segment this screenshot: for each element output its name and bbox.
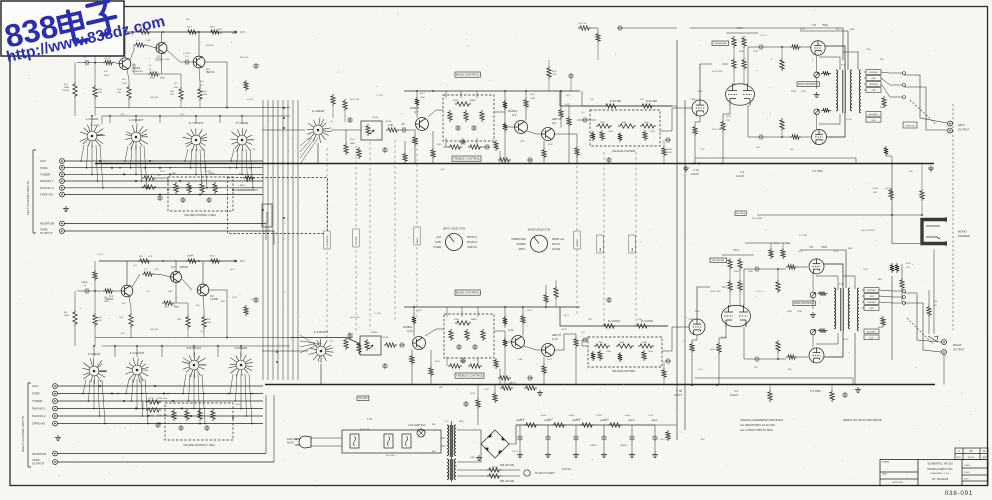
resistor bleed [666, 430, 670, 441]
wire top right [591, 28, 598, 32]
junction [195, 115, 197, 117]
wire input TAPE R [57, 393, 263, 395]
svg-text:APPROVED: APPROVED [893, 481, 904, 484]
svg-text:AUX: AUX [40, 159, 46, 163]
junction [777, 268, 779, 270]
svg-text:BLU: BLU [880, 59, 885, 61]
svg-text:PHONO 2: PHONO 2 [40, 186, 54, 190]
junction [169, 167, 171, 169]
rotary wafer 6-8 REAR bottom [228, 353, 252, 377]
resistor filter R2 [635, 324, 649, 328]
svg-text:DWG: DWG [964, 479, 969, 481]
resistor V3 plate 2a [732, 58, 736, 70]
svg-text:23V: 23V [754, 367, 758, 369]
gang label VOLUME [353, 229, 359, 247]
wire ground bus right channel [265, 384, 935, 386]
wire wafer fan [200, 149, 202, 181]
resistor ladder L1 [503, 100, 507, 110]
junction bus4 [716, 384, 718, 386]
wire [576, 157, 578, 164]
capacitor bass R1 [456, 344, 461, 350]
wire volume out L [233, 189, 258, 191]
resistor R-27R [554, 286, 558, 299]
svg-text:-10V: -10V [120, 114, 125, 116]
svg-text:PHONO 2: PHONO 2 [32, 414, 46, 418]
resistor 598 top [596, 32, 600, 43]
svg-text:DRAWN: DRAWN [882, 461, 890, 464]
svg-text:1.5 TY: 1.5 TY [104, 58, 111, 60]
svg-text:2-P1 LAMP 53-X: 2-P1 LAMP 53-X [408, 424, 426, 427]
svg-text:R-47: R-47 [548, 419, 554, 421]
resistor bass L top [455, 102, 471, 106]
svg-text:40MFD: 40MFD [628, 420, 636, 422]
capacitor PS 1 [463, 401, 468, 407]
capacitor coupling R1 [754, 266, 760, 271]
svg-text:TUNER: TUNER [40, 173, 51, 177]
wire B+ to riser [655, 424, 677, 426]
resistor loudness L [187, 182, 191, 194]
resistor R-30 470K [146, 400, 161, 404]
svg-text:R-11: R-11 [218, 29, 223, 31]
svg-text:R-16: R-16 [150, 78, 156, 80]
resistor filter 1 [524, 423, 538, 427]
svg-text:ALL CAPACITORS IN MFD: ALL CAPACITORS IN MFD [740, 428, 773, 432]
svg-text:BLK: BLK [872, 120, 876, 122]
resistor phones drop 1 [889, 188, 893, 200]
wire V5 cathode [816, 56, 818, 73]
svg-text:R-45: R-45 [470, 393, 476, 395]
svg-text:DRIVER BAL: DRIVER BAL [712, 259, 726, 262]
wire monitor drop L [265, 224, 267, 241]
bundle junction [283, 217, 285, 219]
wire B+ riser [676, 40, 678, 440]
gang shaft (dashed) [369, 142, 371, 330]
svg-text:ORN/WHT: ORN/WHT [867, 302, 877, 304]
svg-text:R-35 470K: R-35 470K [712, 129, 723, 131]
wire [130, 328, 132, 338]
resistor Q9 emitter [542, 148, 546, 159]
wire input PHONO 1 L [64, 180, 263, 182]
svg-text:BLU: BLU [878, 279, 883, 281]
svg-text:T-10: T-10 [444, 421, 449, 423]
resistor PS 2 [493, 392, 497, 403]
bias pot L2 [814, 109, 820, 115]
svg-text:.05: .05 [401, 123, 405, 126]
jack PHONO 1 left [60, 179, 65, 184]
svg-text:BRN: BRN [878, 327, 883, 329]
wire wafer fan [145, 379, 148, 424]
svg-text:V 7A: V 7A [693, 168, 699, 172]
wire wafer24 fan [300, 138, 315, 158]
junction [123, 400, 125, 402]
svg-text:R-33: R-33 [726, 116, 732, 118]
junction [102, 187, 104, 189]
svg-text:-10V: -10V [120, 333, 125, 335]
phones chain lower [933, 249, 935, 334]
gang shaft (dashed) [635, 152, 637, 325]
svg-text:12AU7: 12AU7 [736, 174, 745, 178]
wire [160, 73, 162, 75]
wire [205, 62, 227, 108]
svg-text:RIGHT CHANNEL INPUTS: RIGHT CHANNEL INPUTS [21, 416, 25, 452]
svg-text:2N2924: 2N2924 [206, 45, 214, 47]
wire [554, 334, 576, 350]
junction rail4 [413, 306, 415, 308]
capacitor coupling R2 [754, 356, 760, 361]
transistor Q11 2N2924 [512, 336, 525, 349]
junction [203, 393, 205, 395]
wire bundle 1 [262, 100, 264, 380]
junction [80, 160, 82, 162]
wire [582, 340, 588, 346]
svg-text:R-27: R-27 [564, 315, 570, 317]
label OPT tap 0 [866, 70, 881, 75]
svg-text:LOUDNESS: LOUDNESS [327, 235, 329, 248]
capacitor 845R [842, 392, 847, 398]
wire [739, 292, 741, 306]
output transformer T1 left [836, 70, 852, 113]
wire [663, 157, 665, 164]
junction [219, 115, 221, 117]
svg-text:470K: 470K [104, 301, 110, 303]
resistor treble L2 [468, 145, 482, 149]
wire wafer24F fan [300, 341, 315, 343]
wire wafer fan [136, 379, 138, 409]
svg-text:TAP: TAP [172, 172, 177, 175]
label OPT tap 3 [866, 88, 881, 93]
wire input PHONO 1 R [57, 408, 263, 410]
wire heater [457, 469, 520, 471]
wire drop to wafer [241, 116, 243, 123]
wire OPT tap 1 [864, 77, 866, 79]
resistor R-3R bias [93, 270, 97, 281]
wire cap [603, 425, 605, 435]
junction [91, 174, 93, 176]
svg-text:35-X: 35-X [834, 251, 839, 253]
junction [146, 187, 148, 189]
svg-text:1800: 1800 [64, 315, 70, 317]
wire [901, 264, 903, 278]
wire [769, 385, 771, 390]
wire balance out R [662, 327, 672, 351]
resistor V7B cathode [690, 342, 694, 353]
wire res chain a [733, 48, 735, 58]
loudness control enclosure L [168, 177, 233, 211]
resistor filter R1 [602, 324, 616, 328]
resistor loudness R [211, 409, 215, 421]
svg-text:TUNER: TUNER [433, 247, 441, 249]
wire wafer fan [144, 146, 147, 188]
wire fb join [855, 158, 857, 164]
wire [597, 43, 599, 60]
capacitor 350R [347, 333, 352, 339]
resistor R-7R 1.5K [142, 272, 154, 276]
svg-text:41 V: 41 V [240, 31, 245, 34]
potentiometer wiper [812, 293, 816, 297]
svg-text:470K 10%: 470K 10% [157, 398, 167, 400]
svg-text:SCALE: SCALE [964, 464, 971, 467]
junction [86, 167, 88, 169]
junction [159, 194, 161, 196]
svg-text:TAPE: TAPE [40, 166, 48, 170]
wire res chain b [743, 48, 745, 58]
svg-text:TO PILOT LAMPS: TO PILOT LAMPS [535, 472, 555, 475]
resistor R-19R 1K [209, 259, 221, 263]
wire [560, 91, 562, 108]
svg-text:R-16 47K: R-16 47K [350, 317, 360, 319]
wire spkr 1 [881, 78, 902, 85]
capacitor 620 top [617, 25, 623, 30]
wire Q1 collector [124, 32, 126, 58]
pilot lamp 2 [524, 470, 530, 476]
wire [843, 52, 858, 70]
resistor 359 [357, 147, 361, 159]
resistor R-2 1800 [73, 82, 77, 98]
resistor 346R [344, 338, 348, 350]
resistor filter 2 [552, 423, 566, 427]
transistor Q5 2N2924 [171, 272, 182, 283]
wire [411, 365, 413, 385]
svg-text:R49 100 10W: R49 100 10W [500, 465, 515, 467]
resistor balance R3 [638, 344, 654, 348]
ground input R [55, 435, 61, 441]
svg-text:1.8K: 1.8K [408, 359, 413, 361]
svg-text:MON L: MON L [519, 249, 527, 251]
svg-text:Q 7: Q 7 [414, 110, 419, 114]
svg-text:R-19: R-19 [210, 256, 216, 258]
wire to Q2 base [146, 45, 156, 48]
wire r22 drop [344, 111, 346, 122]
wire [781, 131, 783, 137]
wire [413, 325, 415, 337]
capacitor treble R1 [460, 358, 466, 363]
wire bass cap drop R [462, 357, 464, 363]
wire [760, 268, 786, 270]
wire Q6 collector [202, 261, 204, 284]
capacitor grid V7B [665, 358, 671, 363]
resistor R-6R emitter Q4 [129, 313, 133, 328]
wire [494, 385, 496, 392]
junction [247, 180, 249, 182]
resistor Q12 emitter [542, 364, 546, 375]
resistor phones 3 [927, 305, 931, 317]
rotary wafer 5-7 REAR top [230, 128, 254, 152]
svg-text:C-7 30: C-7 30 [374, 313, 381, 315]
wire wafer fan [191, 149, 193, 168]
svg-text:STEREO: STEREO [517, 244, 527, 246]
wire [413, 307, 415, 315]
capacitor coupling L1 [758, 44, 764, 49]
svg-text:470K: 470K [667, 152, 672, 154]
output transformer T2 right [834, 288, 850, 331]
junction [97, 180, 99, 182]
wire wafer fan [81, 145, 84, 161]
capacitor C-1R [84, 288, 90, 293]
svg-text:ORN: ORN [869, 308, 874, 310]
resistor bass R3 [481, 329, 485, 341]
wire wafer fan [141, 379, 143, 416]
svg-text:SCHEMATIC, NA-230: SCHEMATIC, NA-230 [927, 462, 953, 466]
transistor Q1 2N2924 [119, 58, 131, 70]
resistor grid stop R2 [786, 355, 797, 359]
wire [739, 270, 741, 280]
svg-text:PHONO 2: PHONO 2 [467, 242, 478, 244]
junction [141, 180, 143, 182]
wire drop 500 [499, 151, 501, 164]
gang shaft (dashed) [355, 146, 357, 334]
resistor treble R2 [468, 364, 482, 368]
wire [445, 91, 447, 98]
svg-text:R-8 10K: R-8 10K [150, 329, 159, 331]
resistor loudness R [185, 409, 189, 421]
ground filter 3 [573, 452, 579, 458]
resistor level pot R [365, 339, 369, 351]
svg-text:175 V: 175 V [737, 28, 743, 30]
svg-text:R-31: R-31 [695, 311, 701, 313]
resistor 576R [574, 337, 578, 348]
wire [816, 78, 818, 89]
wire [718, 354, 720, 385]
junction [82, 393, 84, 395]
capacitor 385R [382, 363, 387, 369]
svg-text:FUS 1.6A: FUS 1.6A [360, 428, 370, 431]
svg-text:150K: 150K [650, 131, 656, 133]
svg-text:BALANCE CONTROL: BALANCE CONTROL [612, 370, 636, 373]
wire [555, 299, 557, 307]
svg-text:12AX7: 12AX7 [674, 393, 683, 397]
resistor R60 10 [818, 291, 828, 295]
wire [476, 91, 478, 98]
junction [123, 173, 125, 175]
wire wafer24F fan [300, 343, 318, 347]
wire B+ rail tone R ext [560, 307, 668, 326]
svg-text:-34V: -34V [700, 439, 705, 441]
wire bass box drop1 [445, 138, 447, 147]
wire C18 out [764, 136, 790, 138]
wire [692, 335, 697, 342]
wire drop to wafer [135, 116, 137, 123]
resistor R-31 470K [146, 408, 161, 412]
wire [777, 353, 779, 359]
wire input PHONO 2 L [64, 187, 263, 189]
jack AUX right [53, 384, 58, 389]
wire [129, 297, 131, 313]
wire tape out L [64, 230, 274, 232]
resistor R-16 680K [148, 72, 160, 76]
junction [99, 160, 101, 162]
wire [921, 164, 923, 190]
OPT L lower tap boxes [866, 112, 881, 117]
wire Q5 collector [175, 261, 177, 272]
wire [577, 119, 582, 121]
svg-text:41 V: 41 V [240, 260, 245, 263]
resistor ladder R1 [503, 316, 507, 326]
junction [195, 174, 197, 176]
capacitor treble L1 [460, 139, 466, 144]
svg-text:R-18: R-18 [238, 174, 244, 176]
capacitor loudness L2 [206, 197, 211, 203]
capacitor bass L1 [455, 125, 460, 131]
svg-text:TAPE HD: TAPE HD [467, 246, 477, 249]
wire tape out R [57, 461, 274, 463]
wire [801, 46, 811, 48]
svg-text:23V: 23V [756, 147, 760, 149]
svg-text:MONITOR: MONITOR [265, 212, 269, 224]
bias pot L1 [814, 72, 820, 78]
svg-text:V 4: V 4 [734, 389, 739, 393]
wire drop to wafer [91, 116, 93, 123]
wire [568, 106, 570, 116]
svg-text:RIGHT: RIGHT [953, 343, 962, 347]
capacitor 609R [606, 297, 611, 303]
junction rail [416, 90, 418, 92]
svg-text:R-27: R-27 [566, 95, 572, 97]
label treble control L [452, 156, 481, 161]
wire [411, 350, 413, 355]
svg-text:HARMAN-KARDON INC.: HARMAN-KARDON INC. [927, 468, 953, 471]
wire OPT2 tap 1 [862, 295, 864, 297]
wire to output jack R1 [904, 293, 941, 342]
svg-text:TAPE HD: TAPE HD [32, 422, 46, 426]
bracket right channel inputs [28, 383, 31, 467]
bias pot R1 [810, 292, 816, 298]
gang label LOUDNESS [324, 231, 330, 249]
wire wafer fan [245, 374, 247, 416]
junction [188, 400, 190, 402]
wire [588, 119, 596, 121]
junction [198, 260, 200, 262]
junction [135, 180, 137, 182]
wire wafer fan [83, 380, 86, 394]
svg-text:IN FILTER: IN FILTER [646, 100, 657, 103]
resistor 770R [768, 390, 772, 402]
svg-text:R-51 15K: R-51 15K [660, 439, 670, 441]
svg-text:OUTPUT: OUTPUT [32, 462, 45, 466]
rotary wafer 2-4 FRONT bottom [125, 358, 149, 383]
junction [114, 345, 116, 347]
wire B+ rail right [842, 28, 844, 60]
wire OPT2 tap 3 [862, 307, 864, 309]
gang label BAL [597, 235, 603, 253]
svg-text:R-16: R-16 [164, 307, 170, 309]
resistor 4.7K Rb [895, 263, 899, 273]
wire [441, 445, 445, 447]
svg-text:TAPE: TAPE [32, 392, 40, 396]
svg-text:V 6 7591: V 6 7591 [812, 169, 823, 173]
wire bundle 2 [267, 100, 269, 380]
fuse/switch S1 [384, 434, 393, 448]
svg-text:12K: 12K [786, 243, 790, 245]
resistor grid leak L1 [780, 58, 784, 71]
svg-text:R-31: R-31 [698, 91, 704, 93]
svg-text:C-7 30: C-7 30 [376, 95, 383, 97]
svg-text:TUNER: TUNER [32, 399, 43, 403]
wire r30 join [142, 402, 144, 410]
svg-text:2N2924: 2N2924 [155, 60, 164, 62]
junction [141, 393, 143, 395]
resistor balance L3 [640, 124, 656, 128]
wire wafer fan [230, 374, 233, 394]
svg-text:12K: 12K [726, 120, 730, 122]
bias pot R2 [810, 329, 816, 335]
junction [204, 423, 206, 425]
wire preamp rail L [99, 31, 232, 33]
jack left output 2 [948, 128, 953, 133]
capacitor bass L2 [471, 125, 476, 131]
svg-text:R-34 470K: R-34 470K [712, 71, 723, 73]
label driver balance L [712, 41, 729, 45]
svg-text:PHONES: PHONES [958, 234, 970, 238]
